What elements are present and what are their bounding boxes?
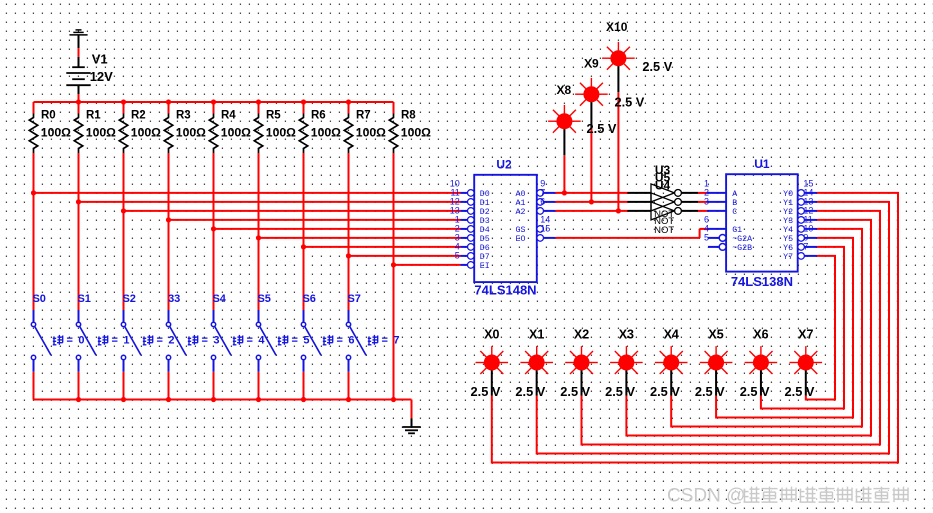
svg-text:X8: X8 bbox=[557, 83, 572, 97]
wire battery to top bus bbox=[78, 85, 80, 94]
label key = 5 bbox=[278, 335, 288, 345]
resistor R8 100&#937; bbox=[393, 102, 395, 114]
svg-text:Y7: Y7 bbox=[783, 253, 793, 262]
svg-text:S4: S4 bbox=[212, 293, 226, 305]
U2 right pin bubbles and numbers bbox=[537, 190, 544, 197]
svg-text:D6: D6 bbox=[480, 244, 490, 253]
wire net Y6: U1 pin 9 to lamp X6 bbox=[804, 246, 817, 248]
switch 33 (key 3) bbox=[168, 310, 170, 322]
svg-text:2.5 V: 2.5 V bbox=[650, 384, 680, 399]
svg-text:X1: X1 bbox=[529, 327, 544, 341]
lamp X8 2.5V bbox=[556, 113, 572, 129]
lamp X5 2.5V bbox=[715, 363, 717, 396]
bottom bus wire (ground rail) bbox=[34, 399, 412, 401]
op-amp? no: IC U2 74LS148N body bbox=[474, 175, 537, 282]
wire net A0: U2 to NOT gate bbox=[544, 192, 556, 194]
svg-text:2.5 V: 2.5 V bbox=[560, 384, 590, 399]
wire R6 bottom column bbox=[303, 153, 305, 310]
svg-text:U4: U4 bbox=[655, 179, 671, 193]
switch S2 (key 2) bbox=[123, 310, 125, 322]
svg-text:100Ω: 100Ω bbox=[221, 126, 251, 140]
svg-text:CSDN @: CSDN @ bbox=[667, 486, 745, 507]
svg-text:Y3: Y3 bbox=[783, 217, 793, 226]
label key = 6 bbox=[323, 335, 333, 345]
junction node A0/lamp X8 bbox=[562, 190, 567, 195]
wire R7 bottom column bbox=[348, 153, 350, 310]
svg-text:X0: X0 bbox=[484, 327, 499, 341]
resistor R0 100&#937; bbox=[33, 102, 35, 114]
junction dots on bottom bus bbox=[76, 397, 81, 402]
resistor R4 100&#937; bbox=[213, 102, 215, 114]
label key = 1 bbox=[98, 335, 108, 345]
svg-text:2.5 V: 2.5 V bbox=[605, 384, 635, 399]
svg-text:~G2B: ~G2B bbox=[732, 244, 752, 253]
resistor R5 100&#937; bbox=[258, 102, 260, 114]
IC U1 74LS138N body bbox=[726, 174, 798, 271]
U2 left pin bubbles and numbers bbox=[468, 190, 475, 197]
junction node A1/lamp X9 bbox=[589, 199, 594, 204]
svg-text:NOT: NOT bbox=[654, 225, 674, 236]
wire net D0: R0 to U2 pin 10 bbox=[34, 192, 461, 194]
svg-text:D4: D4 bbox=[480, 226, 490, 235]
svg-text:S5: S5 bbox=[257, 293, 270, 305]
svg-text:U1: U1 bbox=[754, 157, 770, 171]
label key = 2 bbox=[143, 335, 153, 345]
wire net D1: R1 to U2 pin 11 bbox=[79, 201, 461, 203]
svg-text:3: 3 bbox=[704, 197, 709, 207]
junction node row 1 bbox=[76, 199, 81, 204]
label key = 3 bbox=[188, 335, 198, 345]
wire net EI: R8 to U2 pin 5 bbox=[394, 264, 461, 266]
svg-text:R1: R1 bbox=[86, 109, 101, 121]
svg-text:100Ω: 100Ω bbox=[131, 126, 161, 140]
NOT gate U5 bbox=[651, 193, 675, 211]
wire net A2: U2 to NOT gate bbox=[544, 210, 556, 212]
svg-text:A0: A0 bbox=[516, 190, 526, 199]
svg-text:74LS138N: 74LS138N bbox=[731, 274, 793, 289]
svg-text:15: 15 bbox=[540, 224, 550, 234]
resistor R2 100&#937; bbox=[123, 102, 125, 114]
wire R8 bottom column bbox=[393, 153, 395, 400]
resistor R1 100&#937; bbox=[78, 102, 80, 114]
svg-text:EI: EI bbox=[480, 262, 490, 271]
svg-text:Y4: Y4 bbox=[783, 226, 793, 235]
U1 ~G2A ~G2B stub pins with bubbles bbox=[708, 237, 719, 239]
lamp X6 2.5V bbox=[760, 363, 762, 396]
wire net Y4: U1 pin 11 to lamp X4 bbox=[804, 228, 817, 230]
svg-text:R8: R8 bbox=[401, 109, 416, 121]
svg-text:2.5 V: 2.5 V bbox=[614, 94, 644, 109]
wire lamp X9 to net A1 bbox=[590, 128, 592, 202]
svg-text:= 3: = 3 bbox=[202, 335, 221, 347]
lamp X3 2.5V bbox=[625, 363, 627, 396]
svg-text:R3: R3 bbox=[176, 109, 191, 121]
wire net D4: R4 to U2 pin 1 bbox=[214, 228, 461, 230]
svg-text:S6: S6 bbox=[302, 293, 315, 305]
wire R5 bottom column bbox=[258, 153, 260, 310]
junction node row 4 bbox=[211, 226, 216, 231]
svg-text:D5: D5 bbox=[480, 235, 490, 244]
svg-text:R4: R4 bbox=[221, 109, 236, 121]
wire net D3: R3 to U2 pin 13 bbox=[169, 219, 461, 221]
svg-text:S0: S0 bbox=[32, 293, 45, 305]
svg-text:X3: X3 bbox=[619, 327, 634, 341]
junction node row 5 bbox=[256, 235, 261, 240]
svg-text:GS: GS bbox=[516, 226, 526, 235]
battery V1 12V bbox=[72, 66, 85, 68]
junction node A2/lamp X10 bbox=[616, 208, 621, 213]
top bus wire (+12V rail) bbox=[34, 101, 394, 103]
wire net D6: R6 to U2 pin 3 bbox=[304, 246, 461, 248]
svg-text:D7: D7 bbox=[480, 253, 490, 262]
resistor R3 100&#937; bbox=[168, 102, 170, 114]
wire R0 bottom column bbox=[33, 153, 35, 310]
svg-text:X9: X9 bbox=[584, 57, 599, 71]
svg-text:R7: R7 bbox=[356, 109, 371, 121]
svg-text:X2: X2 bbox=[574, 327, 589, 341]
lamp X9 2.5V bbox=[583, 86, 599, 102]
switch S4 (key 4) bbox=[213, 310, 215, 322]
svg-text:D3: D3 bbox=[480, 217, 490, 226]
svg-text:R0: R0 bbox=[41, 109, 56, 121]
lamp X4 2.5V bbox=[670, 363, 672, 396]
switch S0 (key 0) bbox=[33, 310, 35, 322]
svg-text:100Ω: 100Ω bbox=[266, 126, 296, 140]
svg-text:X5: X5 bbox=[708, 327, 723, 341]
U1 right pin bubbles and numbers bbox=[798, 190, 805, 197]
wire bus to ground bbox=[411, 400, 413, 419]
wire net Y0: U1 pin 15 to lamp X0 bbox=[804, 192, 817, 194]
wire net A1: U2 to NOT gate bbox=[544, 201, 556, 203]
junction node row 6 bbox=[301, 244, 306, 249]
lamp X2 2.5V bbox=[581, 363, 583, 396]
svg-text:X6: X6 bbox=[753, 327, 768, 341]
svg-text:2.5 V: 2.5 V bbox=[695, 384, 725, 399]
lamp X1 2.5V bbox=[536, 363, 538, 396]
switch S7 (key 7) bbox=[348, 310, 350, 322]
svg-text:2.5 V: 2.5 V bbox=[740, 384, 770, 399]
svg-text:2.5 V: 2.5 V bbox=[587, 121, 617, 136]
wire R4 bottom column bbox=[213, 153, 215, 310]
svg-text:R2: R2 bbox=[131, 109, 146, 121]
svg-text:= 1: = 1 bbox=[112, 335, 131, 347]
svg-text:= 5: = 5 bbox=[292, 335, 311, 347]
switch S6 (key 6) bbox=[303, 310, 305, 322]
svg-text:Y5: Y5 bbox=[783, 235, 793, 244]
svg-text:2.5 V: 2.5 V bbox=[642, 59, 672, 74]
wire net D7: R7 to U2 pin 4 bbox=[349, 255, 461, 257]
junction dots on top bus bbox=[76, 99, 81, 104]
NOT gate U4 bbox=[651, 202, 675, 220]
label key = 7 bbox=[368, 335, 378, 345]
svg-text:B: B bbox=[732, 199, 737, 208]
svg-text:33: 33 bbox=[168, 293, 180, 305]
junction node row 7 bbox=[346, 253, 351, 258]
svg-text:Y0: Y0 bbox=[783, 190, 793, 199]
wire net D5: R5 to U2 pin 2 bbox=[259, 237, 461, 239]
wire R2 bottom column bbox=[123, 153, 125, 310]
svg-text:S2: S2 bbox=[122, 293, 135, 305]
junction node row 3 bbox=[166, 217, 171, 222]
svg-text:X10: X10 bbox=[606, 20, 628, 34]
svg-text:Y2: Y2 bbox=[783, 208, 793, 217]
svg-text:D1: D1 bbox=[480, 199, 490, 208]
lamp X10 2.5V bbox=[610, 50, 626, 66]
svg-text:~G2A: ~G2A bbox=[732, 235, 752, 244]
svg-text:100Ω: 100Ω bbox=[41, 126, 71, 140]
resistor R6 100&#937; bbox=[303, 102, 305, 114]
wire net EO: U2 pin 15 to U1 G1 bbox=[544, 237, 556, 239]
wire ground to battery V1 bbox=[78, 35, 80, 48]
junction node row 8 bbox=[391, 262, 396, 267]
svg-text:A2: A2 bbox=[516, 208, 526, 217]
svg-text:= 0: = 0 bbox=[67, 335, 86, 347]
resistor R7 100&#937; bbox=[348, 102, 350, 114]
svg-text:100Ω: 100Ω bbox=[311, 126, 341, 140]
svg-text:2.5 V: 2.5 V bbox=[471, 384, 501, 399]
label key = 0 bbox=[53, 335, 63, 345]
lamp X0 2.5V bbox=[491, 363, 493, 396]
svg-text:100Ω: 100Ω bbox=[176, 126, 206, 140]
wire net Y2: U1 pin 13 to lamp X2 bbox=[804, 210, 817, 212]
svg-text:5: 5 bbox=[455, 251, 460, 261]
svg-text:R6: R6 bbox=[311, 109, 326, 121]
wire net Y5: U1 pin 10 to lamp X5 bbox=[804, 237, 817, 239]
svg-text:D2: D2 bbox=[480, 208, 490, 217]
wire lamp X8 to net A0 bbox=[563, 155, 565, 193]
ground (bottom) bbox=[402, 426, 420, 428]
svg-text:74LS148N: 74LS148N bbox=[474, 283, 536, 298]
wire lamp X10 to net A2 bbox=[617, 92, 619, 211]
svg-text:Y1: Y1 bbox=[783, 199, 793, 208]
svg-text:A1: A1 bbox=[516, 199, 526, 208]
wire R1 bottom column bbox=[78, 153, 80, 310]
junction node row 0 bbox=[31, 190, 36, 195]
label key = 4 bbox=[233, 335, 243, 345]
svg-text:Y6: Y6 bbox=[783, 244, 793, 253]
svg-text:100Ω: 100Ω bbox=[356, 126, 386, 140]
svg-text:100Ω: 100Ω bbox=[86, 126, 116, 140]
svg-text:12V: 12V bbox=[90, 69, 113, 84]
svg-text:V1: V1 bbox=[92, 51, 108, 66]
svg-text:A: A bbox=[732, 190, 737, 199]
svg-text:EO: EO bbox=[516, 235, 526, 244]
lamp X7 2.5V bbox=[805, 363, 807, 396]
wire net Y3: U1 pin 12 to lamp X3 bbox=[804, 219, 817, 221]
svg-text:= 6: = 6 bbox=[337, 335, 356, 347]
svg-text:S7: S7 bbox=[347, 293, 360, 305]
svg-text:D0: D0 bbox=[480, 190, 490, 199]
wire R3 bottom column bbox=[168, 153, 170, 310]
svg-text:G1: G1 bbox=[732, 226, 742, 235]
svg-text:X4: X4 bbox=[664, 327, 679, 341]
svg-text:C: C bbox=[732, 208, 737, 217]
wire net D2: R2 to U2 pin 12 bbox=[124, 210, 461, 212]
svg-text:100Ω: 100Ω bbox=[401, 126, 431, 140]
wire net Y7: U1 pin 7 to lamp X7 bbox=[804, 255, 817, 257]
wire net Y1: U1 pin 14 to lamp X1 bbox=[804, 201, 817, 203]
svg-text:U2: U2 bbox=[496, 157, 512, 171]
ground (battery top) bbox=[76, 29, 82, 31]
junction node row 2 bbox=[121, 208, 126, 213]
svg-text:= 2: = 2 bbox=[157, 335, 176, 347]
svg-text:= 7: = 7 bbox=[382, 335, 401, 347]
switch S5 (key 5) bbox=[258, 310, 260, 322]
svg-text:X7: X7 bbox=[798, 327, 813, 341]
svg-text:S1: S1 bbox=[77, 293, 90, 305]
svg-text:R5: R5 bbox=[266, 109, 281, 121]
NOT gate U3 bbox=[651, 184, 675, 202]
svg-text:2.5 V: 2.5 V bbox=[515, 384, 545, 399]
svg-text:= 4: = 4 bbox=[247, 335, 266, 347]
switch S1 (key 1) bbox=[78, 310, 80, 322]
svg-text:2.5 V: 2.5 V bbox=[785, 384, 815, 399]
